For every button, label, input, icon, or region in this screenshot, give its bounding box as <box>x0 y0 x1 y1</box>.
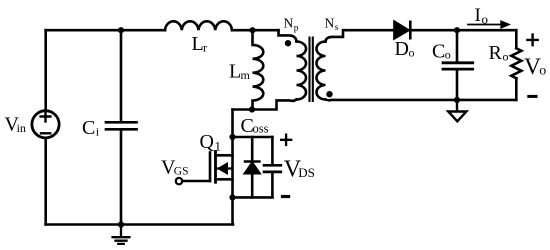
svg-text:r: r <box>203 41 207 55</box>
wire Q1 block top rail <box>233 136 273 139</box>
svg-text:DS: DS <box>298 165 315 180</box>
node Ci top <box>118 27 124 33</box>
svg-text:o: o <box>445 48 451 62</box>
transistor Q1 body stub <box>217 167 233 169</box>
wire right rail lower <box>515 78 518 100</box>
wire Q1 block bottom rail <box>233 196 273 199</box>
svg-text:C: C <box>432 41 445 63</box>
wire Lr to node <box>232 29 279 32</box>
wire trunk Q1 <box>231 110 234 225</box>
node Lm top <box>249 27 255 33</box>
node Ci bottom <box>118 221 124 227</box>
svg-text:Q: Q <box>200 131 215 153</box>
capacitor Coss wire lower <box>271 173 274 197</box>
svg-text:L: L <box>229 61 241 83</box>
wire Co lower <box>456 70 459 100</box>
body diode wire lower <box>251 173 254 197</box>
svg-text:N: N <box>284 16 294 31</box>
wire Ns bottom hook / secondary bottom rail <box>326 98 517 101</box>
wire top rail left segment <box>46 29 165 32</box>
plus sign VDS <box>281 135 291 145</box>
wire Do to Co node <box>408 29 457 32</box>
svg-text:D: D <box>395 38 409 60</box>
diode Do cathode bar <box>409 22 412 38</box>
Vin plus sign <box>41 112 51 122</box>
svg-text:oss: oss <box>253 122 269 136</box>
capacitor Ci <box>106 122 137 129</box>
svg-text:in: in <box>17 121 26 135</box>
winding Np <box>297 42 307 100</box>
svg-text:L: L <box>192 33 204 55</box>
inductor Lm <box>253 30 264 109</box>
node Q1 drain <box>229 134 235 140</box>
wire Ci top <box>120 30 123 121</box>
wire bottom rail <box>46 223 233 226</box>
svg-text:o: o <box>503 50 509 64</box>
capacitor Co <box>443 63 473 69</box>
svg-text:p: p <box>294 24 299 34</box>
transformer core <box>310 38 313 102</box>
arrow Io <box>468 24 502 26</box>
svg-text:R: R <box>489 42 503 64</box>
body diode cathode bar <box>245 160 259 163</box>
dot Ns phase <box>326 91 332 97</box>
wire gate lead <box>182 180 210 183</box>
minus sign Vo <box>529 95 536 98</box>
svg-text:m: m <box>241 68 251 82</box>
gate terminal circle <box>176 178 182 184</box>
svg-text:o: o <box>539 64 546 79</box>
node Co bottom <box>454 97 460 103</box>
ground output triangle <box>448 100 466 121</box>
wire Np top hook <box>279 30 297 41</box>
capacitor Coss wire upper <box>271 137 274 164</box>
minus sign VDS <box>283 195 289 198</box>
transistor Q1 drain stub <box>216 154 233 157</box>
body diode wire upper <box>251 137 254 160</box>
wire Np bottom hook <box>233 100 297 110</box>
transistor Q1 gate bar <box>209 153 212 182</box>
transistor Q1 source stub <box>216 178 233 181</box>
wire Co upper <box>456 30 459 61</box>
resistor Ro <box>511 48 521 78</box>
wire left rail lower <box>44 138 47 225</box>
plus sign Vo <box>527 35 537 46</box>
source Vin <box>32 111 59 138</box>
transistor Q1 channel bar <box>214 152 217 183</box>
transistor Q1 arrow <box>217 162 228 175</box>
svg-text:1: 1 <box>215 139 222 154</box>
node Lm bottom <box>249 106 255 112</box>
svg-text:GS: GS <box>174 166 189 178</box>
inductor Lr <box>165 21 232 30</box>
svg-text:I: I <box>475 5 481 26</box>
wire right rail upper <box>515 30 518 48</box>
wire left rail upper <box>44 30 47 111</box>
diode Do <box>395 22 409 38</box>
wire Ci bottom <box>120 131 123 225</box>
svg-text:o: o <box>482 12 489 27</box>
dot Np phase <box>285 40 291 46</box>
svg-text:N: N <box>325 16 335 31</box>
node Co top <box>454 27 460 33</box>
wire Co node to right rail <box>457 29 516 32</box>
ground earth symbol <box>113 225 130 244</box>
node Q1 source <box>229 194 235 200</box>
svg-text:C: C <box>82 117 95 139</box>
wire Ns top hook <box>326 30 395 41</box>
Vin minus sign <box>41 132 50 134</box>
body diode triangle <box>245 163 259 173</box>
svg-text:o: o <box>409 46 415 60</box>
svg-text:i: i <box>96 125 100 139</box>
capacitor Coss plates <box>264 165 281 172</box>
svg-text:s: s <box>335 23 339 33</box>
winding Ns <box>317 42 326 100</box>
